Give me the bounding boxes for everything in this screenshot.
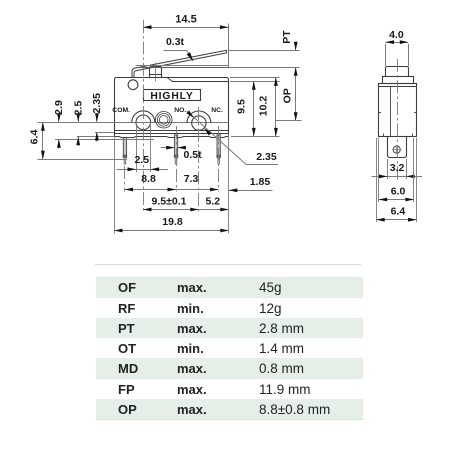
- NC terminal pin: [217, 135, 220, 165]
- dimension 4.0: [386, 29, 409, 66]
- svg-text:2.5: 2.5: [72, 101, 84, 116]
- extension line D: [55, 139, 154, 141]
- dimension 3.2: [372, 159, 423, 179]
- COM rivet: [132, 111, 155, 173]
- table row OT: [96, 338, 364, 358]
- bottom mounting plate: [115, 137, 229, 138]
- dimension 10.2: [257, 77, 278, 136]
- dimension 2.9: [53, 100, 65, 148]
- svg-text:OP: OP: [281, 88, 293, 103]
- extension line B: [95, 132, 114, 134]
- free position line: [229, 50, 300, 52]
- pin bottom extension: [38, 159, 128, 161]
- svg-text:5.2: 5.2: [205, 195, 220, 207]
- dimension 6.4 side: [376, 138, 416, 222]
- label OP: [281, 88, 293, 103]
- side centerline: [397, 59, 399, 180]
- svg-text:0.5t: 0.5t: [184, 149, 203, 161]
- dimension 1.85: [229, 176, 273, 192]
- dimension 6.0: [379, 138, 414, 202]
- svg-text:HIGHLY: HIGHLY: [150, 91, 193, 102]
- terminal hole: [392, 145, 401, 154]
- dimension 2.5 rivet: [117, 154, 169, 171]
- NO centerline: [198, 107, 200, 214]
- svg-text:14.5: 14.5: [175, 13, 196, 25]
- svg-text:2.35: 2.35: [91, 93, 103, 114]
- svg-text:9.5±0.1: 9.5±0.1: [152, 195, 187, 207]
- table row MD: [96, 358, 364, 378]
- NO. label: [174, 107, 186, 114]
- dimension 5.2: [199, 195, 229, 211]
- left edge extension: [114, 138, 116, 234]
- dimension PT: [281, 30, 298, 121]
- svg-text:6.0: 6.0: [391, 185, 406, 197]
- NO terminal pin: [174, 135, 177, 165]
- dimension 6.4 left: [28, 122, 45, 159]
- OP bottom extension: [276, 120, 302, 122]
- table bottom rule: [96, 419, 364, 420]
- seam extension: [230, 81, 280, 83]
- svg-text:0.3t: 0.3t: [166, 36, 185, 48]
- svg-text:9.5: 9.5: [235, 99, 247, 114]
- svg-text:NO.: NO.: [174, 107, 186, 114]
- side view plunger: [383, 67, 414, 84]
- HIGHLY label: [144, 90, 201, 102]
- body top extension: [230, 77, 280, 79]
- side view terminal: [388, 137, 407, 158]
- switch body: [115, 78, 229, 137]
- operating position line: [229, 67, 300, 69]
- svg-text:6.4: 6.4: [28, 130, 40, 145]
- table row FP: [96, 379, 364, 399]
- table row OF: [96, 277, 364, 297]
- table row PT: [96, 318, 364, 338]
- svg-text:6.4: 6.4: [391, 206, 406, 218]
- dimension 9.5: [235, 81, 255, 136]
- COM terminal pin: [123, 138, 126, 165]
- svg-text:19.8: 19.8: [162, 216, 183, 228]
- right pin centerline: [218, 126, 220, 192]
- svg-text:3.2: 3.2: [390, 162, 405, 174]
- dimension 7.3: [176, 173, 219, 191]
- NC. label: [211, 107, 223, 114]
- svg-text:PT: PT: [281, 30, 293, 44]
- dimension 2.35 rivet: [186, 111, 278, 165]
- svg-text:1.85: 1.85: [250, 176, 271, 188]
- plunger button: [149, 63, 161, 82]
- dimension 0.5t: [161, 146, 202, 161]
- middle contact: [155, 112, 172, 129]
- left pin centerline: [124, 166, 126, 192]
- svg-text:8.8: 8.8: [141, 173, 156, 185]
- extension line C: [77, 136, 114, 138]
- svg-text:2.5: 2.5: [134, 154, 149, 166]
- dimension 14.5: [143, 13, 229, 67]
- side view body: [379, 84, 417, 137]
- dimension 2.35 left: [91, 93, 103, 142]
- dimension 9.5±0.1: [143, 195, 199, 211]
- svg-text:COM.: COM.: [112, 107, 130, 114]
- svg-text:2.35: 2.35: [256, 151, 277, 163]
- NO rivet: [187, 111, 211, 130]
- dimension 2.5 left: [72, 101, 84, 146]
- label 0.3t: [164, 36, 194, 62]
- middle pin centerline: [176, 126, 178, 192]
- contact strip line: [38, 122, 229, 124]
- COM centerline: [143, 20, 145, 214]
- svg-text:4.0: 4.0: [389, 29, 404, 41]
- lever arm: [132, 50, 227, 78]
- svg-text:10.2: 10.2: [257, 96, 269, 117]
- body bottom extension: [231, 136, 280, 138]
- dimension 8.8: [125, 173, 177, 191]
- svg-text:NC.: NC.: [211, 107, 223, 114]
- right edge extension: [228, 134, 230, 234]
- dimension 19.8: [114, 216, 229, 232]
- pivot hole: [128, 80, 138, 90]
- svg-text:2.9: 2.9: [53, 100, 65, 115]
- table top rule: [95, 264, 361, 265]
- svg-text:7.3: 7.3: [184, 173, 199, 185]
- table row RF: [96, 298, 364, 318]
- table row OP: [96, 399, 364, 419]
- COM. label: [112, 107, 130, 114]
- lever operated position: [136, 66, 229, 68]
